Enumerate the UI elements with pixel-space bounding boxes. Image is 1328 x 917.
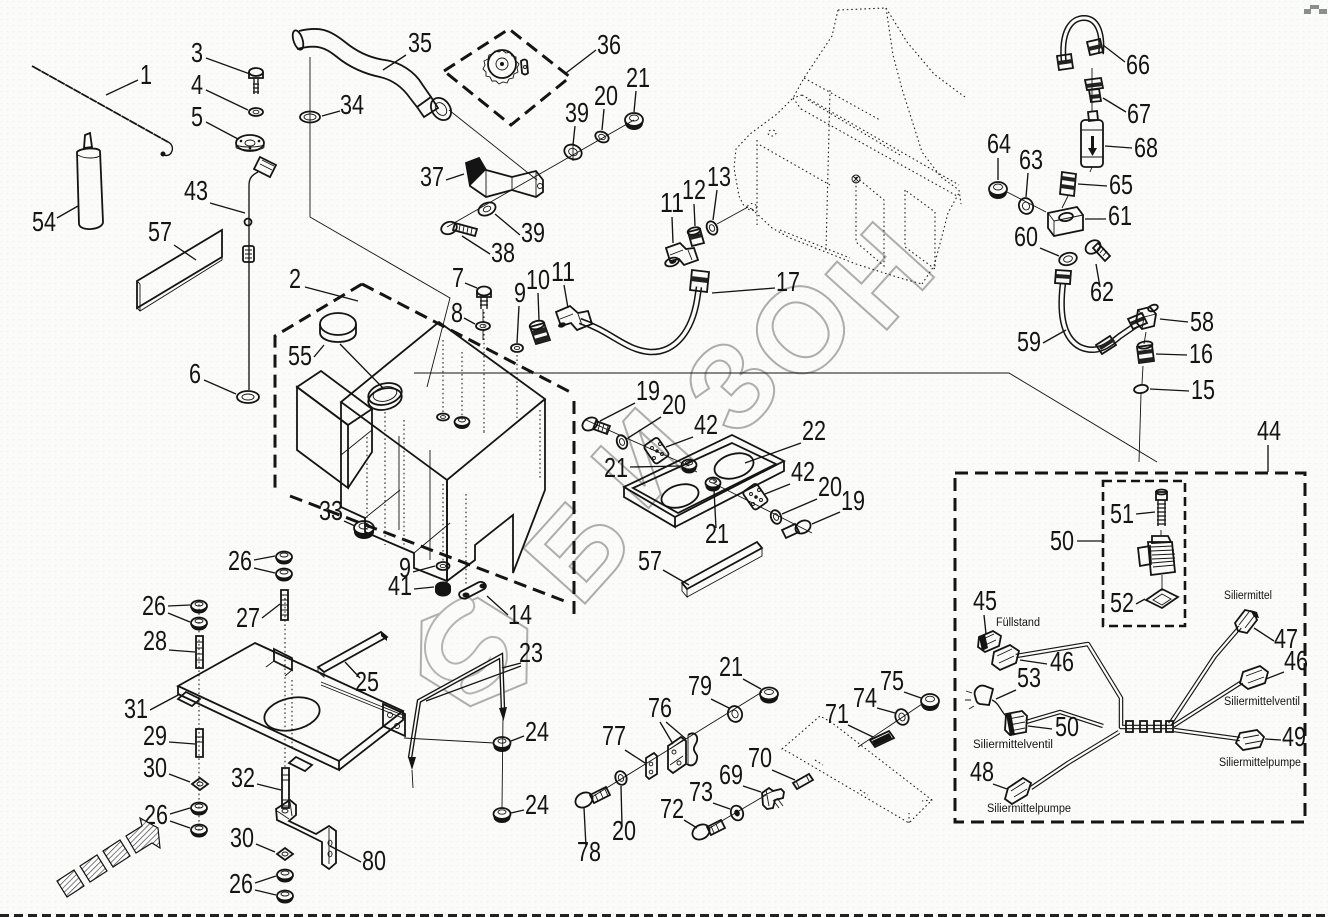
label 20e <box>612 786 636 846</box>
label 33 <box>319 495 355 526</box>
connector part 45 <box>978 631 1001 652</box>
washer part 39 lower <box>476 200 497 218</box>
label 4 <box>191 69 248 110</box>
axis 58-15 <box>1139 332 1146 462</box>
label 8 <box>451 297 475 328</box>
label 17 <box>712 266 800 297</box>
label 2 <box>289 263 358 301</box>
svg-text:37: 37 <box>420 161 444 192</box>
pin part 71 <box>870 731 894 747</box>
label 21 top <box>626 62 650 112</box>
label 30b <box>230 822 275 853</box>
connector part 50b <box>1005 711 1027 736</box>
svg-text:8: 8 <box>451 297 463 328</box>
stud part 27 <box>281 590 288 620</box>
svg-text:26: 26 <box>229 868 253 899</box>
nut part 24 <box>494 737 511 752</box>
label 29 <box>143 720 195 751</box>
axis 75-71 <box>858 704 922 747</box>
plate part 42 <box>643 437 670 465</box>
svg-text:34: 34 <box>340 89 364 120</box>
svg-text:Siliermittelventil: Siliermittelventil <box>973 739 1053 751</box>
washer part 30b <box>277 848 293 860</box>
boundary line <box>310 57 450 387</box>
cap part 36 <box>483 50 528 84</box>
label 13 <box>707 161 731 220</box>
stud part 29 <box>195 729 204 757</box>
label 1 <box>106 59 152 95</box>
svg-text:19: 19 <box>636 375 660 406</box>
label 26 left <box>142 590 190 622</box>
dipstick part 43 <box>243 157 276 390</box>
svg-text:42: 42 <box>694 409 718 440</box>
svg-text:78: 78 <box>577 836 601 867</box>
svg-text:24: 24 <box>525 716 549 747</box>
svg-text:11: 11 <box>660 187 684 218</box>
svg-text:22: 22 <box>802 415 826 446</box>
svg-text:51: 51 <box>1110 498 1134 529</box>
label 32 <box>231 762 281 793</box>
svg-text:36: 36 <box>597 29 621 60</box>
label 44 <box>1257 415 1281 472</box>
label 14 <box>487 596 532 630</box>
bottom page dashed border <box>0 914 1328 917</box>
label 21e <box>719 651 761 689</box>
nut on tank top <box>455 417 470 429</box>
watermark emblem (hexagon S) <box>395 574 554 731</box>
svg-text:29: 29 <box>143 720 167 751</box>
washer part 20e <box>613 770 628 787</box>
label 9 <box>514 277 526 343</box>
label 75 <box>880 665 921 698</box>
label 60 <box>1014 221 1059 256</box>
washer part 74 <box>893 707 911 726</box>
label 68 <box>1105 132 1158 163</box>
ring part 34 <box>300 112 320 123</box>
svg-text:Siliermittelventil: Siliermittelventil <box>1224 696 1300 708</box>
svg-text:27: 27 <box>236 602 260 633</box>
screw part 3 <box>249 68 263 94</box>
label 16 <box>1156 338 1213 369</box>
axis 19-21 <box>586 420 689 466</box>
axis 64-61 <box>1007 192 1046 212</box>
svg-text:72: 72 <box>660 793 684 824</box>
label 50b <box>1028 711 1079 742</box>
svg-text:53: 53 <box>1017 662 1041 693</box>
svg-text:77: 77 <box>602 720 626 751</box>
label 3 <box>191 37 250 74</box>
svg-text:54: 54 <box>32 206 56 237</box>
svg-text:57: 57 <box>148 216 172 247</box>
label 67 <box>1103 98 1151 129</box>
svg-text:33: 33 <box>319 495 343 526</box>
svg-text:21: 21 <box>626 62 650 93</box>
label 53 <box>996 662 1041 699</box>
bolt part 7 <box>477 287 491 310</box>
svg-text:20: 20 <box>594 80 618 111</box>
dashed box 2 <box>275 284 574 614</box>
label 19 <box>600 375 660 421</box>
pin part 70 <box>793 774 813 789</box>
bracket part 37 <box>466 158 543 197</box>
svg-text:20: 20 <box>818 471 842 502</box>
svg-text:60: 60 <box>1014 221 1038 252</box>
nut part 21b on tray <box>706 478 721 492</box>
svg-text:24: 24 <box>525 789 549 820</box>
washer part 13 <box>705 220 720 237</box>
blade (dotted machine part) <box>782 716 932 823</box>
svg-text:79: 79 <box>688 670 712 701</box>
fitting part 12 <box>687 226 704 246</box>
label 21b <box>705 490 729 549</box>
svg-text:32: 32 <box>231 762 255 793</box>
label 20 <box>628 389 686 438</box>
label 46b <box>1266 645 1308 679</box>
label 26 bottom-left <box>144 799 190 830</box>
svg-text:67: 67 <box>1127 98 1151 129</box>
label 58 <box>1160 306 1214 337</box>
nut part 75 <box>921 694 939 711</box>
label 10 <box>526 264 550 320</box>
leader 8 axis <box>483 309 484 433</box>
label 57 middle <box>638 545 689 585</box>
seal part 52 <box>1146 589 1178 608</box>
label 12 <box>682 174 706 226</box>
label 80 <box>330 845 386 876</box>
svg-text:55: 55 <box>288 340 312 371</box>
washer part 9 lower <box>437 562 450 570</box>
svg-text:26: 26 <box>228 545 252 576</box>
nut part 24b <box>494 808 511 823</box>
tank part (under 2) <box>297 312 545 584</box>
screw part 62 <box>1083 237 1110 261</box>
washer part 39 upper <box>562 142 584 162</box>
label 57 upper <box>148 216 196 260</box>
label 22 <box>745 415 826 463</box>
screw part 38 <box>439 220 477 237</box>
bracket part 69 <box>762 788 784 809</box>
label 7 <box>452 262 477 293</box>
plate part 77 <box>646 753 657 779</box>
svg-text:41: 41 <box>388 570 412 601</box>
ring part 6 <box>237 391 259 403</box>
svg-text:30: 30 <box>143 752 167 783</box>
svg-text:2: 2 <box>289 263 301 294</box>
leader 13 to body hole <box>717 207 748 224</box>
fitting part 10 <box>529 319 550 344</box>
svg-text:21: 21 <box>719 651 743 682</box>
label 30 <box>143 752 190 783</box>
svg-text:80: 80 <box>362 845 386 876</box>
svg-text:15: 15 <box>1191 374 1215 405</box>
bolt part 19 <box>580 415 610 434</box>
svg-text:57: 57 <box>638 545 662 576</box>
ring part 15 <box>1133 384 1148 394</box>
label 55 <box>288 340 324 371</box>
nut part 21 on tray <box>682 460 697 474</box>
label 69 <box>719 759 761 792</box>
label 9 lower <box>399 552 435 583</box>
label 26 top <box>228 545 275 576</box>
plate part 42b <box>742 483 769 511</box>
svg-text:9: 9 <box>514 277 526 308</box>
svg-text:73: 73 <box>689 776 713 807</box>
svg-text:58: 58 <box>1190 306 1214 337</box>
plug part 53 <box>965 686 1006 716</box>
washer part 20 <box>615 434 629 451</box>
svg-text:44: 44 <box>1257 415 1281 446</box>
page corner marks top-right <box>1304 5 1327 14</box>
label 61 <box>1085 200 1132 231</box>
harness wires <box>1016 627 1242 788</box>
label 19b <box>812 485 865 524</box>
svg-text:76: 76 <box>648 692 672 723</box>
nuts part 26 top <box>276 552 292 582</box>
svg-text:50: 50 <box>1050 525 1074 556</box>
harness junction ticks <box>1126 721 1173 732</box>
svg-text:25: 25 <box>355 666 379 697</box>
svg-text:39: 39 <box>565 97 589 128</box>
label 39 upper <box>565 97 589 145</box>
strip part 57 upper <box>137 230 222 311</box>
leader plate to 24 <box>404 738 494 743</box>
label 71 <box>825 698 873 737</box>
label 74 <box>853 682 895 713</box>
washer part 30 <box>192 778 208 790</box>
label 49 <box>1265 721 1306 752</box>
washer part 73 <box>729 804 745 822</box>
fitting part 16 <box>1137 340 1154 363</box>
label 15 <box>1150 374 1215 405</box>
svg-text:62: 62 <box>1090 276 1114 307</box>
connector part 48 <box>1005 778 1031 804</box>
connector part 47 <box>1235 610 1259 633</box>
label 25 <box>345 662 379 697</box>
label 59 <box>1017 326 1066 357</box>
label 31 <box>124 693 180 724</box>
label 73 <box>689 776 730 809</box>
svg-text:71: 71 <box>825 698 849 729</box>
svg-text:30: 30 <box>230 822 254 853</box>
label 47 <box>1254 623 1298 654</box>
svg-text:50: 50 <box>1055 711 1079 742</box>
label 37 <box>420 161 464 192</box>
elbow part 58 <box>1136 303 1159 329</box>
svg-text:66: 66 <box>1126 49 1150 80</box>
elbow part 11 right <box>664 243 698 268</box>
svg-text:46: 46 <box>1284 645 1308 676</box>
label 65 <box>1078 169 1133 200</box>
label 64 <box>987 128 1011 180</box>
svg-text:39: 39 <box>521 217 545 248</box>
svg-text:17: 17 <box>776 266 800 297</box>
washer part 4 <box>249 108 263 116</box>
axis 21b-19b <box>713 483 812 533</box>
connector part 46b <box>1240 666 1268 689</box>
svg-text:26: 26 <box>142 590 166 621</box>
tube part 54 <box>77 133 103 229</box>
axis 72-69 <box>708 795 766 829</box>
svg-text:5: 5 <box>191 101 203 132</box>
screw part 78 <box>573 787 610 811</box>
svg-text:Siliermittelpumpe: Siliermittelpumpe <box>987 803 1071 815</box>
nut part 21e <box>760 688 778 704</box>
svg-text:1: 1 <box>140 59 152 90</box>
nut part 21 top <box>625 113 643 130</box>
svg-text:Siliermittelpumpe: Siliermittelpumpe <box>1219 757 1301 769</box>
svg-text:46: 46 <box>1050 646 1074 677</box>
flange part 5 <box>236 135 264 151</box>
label 23 <box>426 637 543 701</box>
travel arrow symbol <box>57 818 160 897</box>
svg-text:38: 38 <box>491 237 515 268</box>
dashed box 50 <box>1103 481 1185 626</box>
label 62 <box>1090 264 1114 307</box>
svg-text:7: 7 <box>452 262 464 293</box>
svg-text:61: 61 <box>1108 200 1132 231</box>
washer part 9 <box>511 344 523 352</box>
label 41 <box>388 570 434 601</box>
elbow part 11 <box>556 306 592 330</box>
connector part 46a <box>992 645 1019 670</box>
bail part 23 <box>408 656 507 808</box>
label 24 <box>511 716 549 747</box>
label 28 <box>143 625 195 656</box>
svg-text:21: 21 <box>705 518 729 549</box>
fitting part 67 <box>1085 78 1103 102</box>
machine body outline <box>734 8 965 284</box>
platform part 31 <box>178 598 405 832</box>
svg-text:43: 43 <box>184 175 208 206</box>
label 20 top <box>594 80 618 130</box>
label 42 <box>666 409 718 447</box>
label 36 <box>566 29 621 73</box>
dashed box 44 <box>955 473 1305 822</box>
svg-text:12: 12 <box>682 174 706 205</box>
svg-text:Siliermittel: Siliermittel <box>1224 590 1272 602</box>
label 42b <box>765 456 815 494</box>
solenoid valve part 50 <box>1138 530 1175 591</box>
svg-text:13: 13 <box>707 161 731 192</box>
bolt part 19b <box>782 518 813 538</box>
svg-text:52: 52 <box>1110 587 1134 618</box>
screw on body <box>852 175 860 183</box>
svg-text:70: 70 <box>748 742 772 773</box>
label 52 <box>1110 587 1145 618</box>
label 77 <box>602 720 645 763</box>
svg-text:11: 11 <box>551 256 575 287</box>
nut part 33 <box>354 521 374 539</box>
label 20b <box>782 471 842 514</box>
svg-text:Füllstand: Füllstand <box>996 617 1040 629</box>
stud part 28 <box>196 636 203 668</box>
label 26 bottom <box>229 868 276 899</box>
hose part 17 <box>580 270 709 352</box>
washer on tank top <box>437 414 449 421</box>
label 72 <box>660 793 697 828</box>
svg-text:4: 4 <box>191 69 203 100</box>
svg-text:6: 6 <box>189 358 201 389</box>
cap part 55 <box>320 313 383 388</box>
label 24b <box>511 789 549 820</box>
label 51 <box>1110 498 1155 529</box>
label 78 <box>577 808 601 867</box>
tray part 22 <box>624 435 784 527</box>
washer part 20 top <box>594 130 611 145</box>
connector part 49 <box>1236 730 1264 750</box>
svg-text:65: 65 <box>1109 169 1133 200</box>
label 48 <box>970 756 1007 789</box>
svg-text:14: 14 <box>508 599 532 630</box>
screw part 72 <box>690 820 725 843</box>
label 76 <box>648 692 686 744</box>
svg-text:28: 28 <box>143 625 167 656</box>
svg-text:69: 69 <box>719 759 743 790</box>
nuts part 26 bottom <box>277 870 293 904</box>
svg-text:49: 49 <box>1282 721 1306 752</box>
svg-text:3: 3 <box>191 37 203 68</box>
label 46a <box>1020 646 1074 677</box>
svg-text:21: 21 <box>604 452 628 483</box>
label 11 right <box>660 187 684 243</box>
svg-text:45: 45 <box>973 585 997 616</box>
label 35 <box>383 27 432 70</box>
washer part 79 <box>726 704 745 724</box>
svg-text:59: 59 <box>1017 326 1041 357</box>
svg-text:20: 20 <box>662 389 686 420</box>
svg-text:23: 23 <box>519 637 543 668</box>
label 45 <box>973 585 997 634</box>
label 39 lower <box>495 214 545 248</box>
svg-text:48: 48 <box>970 756 994 787</box>
label 79 <box>688 670 729 708</box>
assembly axis 37-21 <box>447 120 634 227</box>
nipple part 65 <box>1060 172 1076 196</box>
washer part 60 <box>1058 251 1078 267</box>
svg-text:63: 63 <box>1019 144 1043 175</box>
svg-text:68: 68 <box>1134 132 1158 163</box>
axis 66-65 <box>1062 68 1092 208</box>
svg-text:64: 64 <box>987 128 1011 159</box>
stud part 32 <box>281 768 290 808</box>
plug part 41 <box>435 582 451 597</box>
washer part 8 <box>476 322 490 330</box>
bracket part 80 <box>276 800 336 869</box>
label 43 <box>184 175 245 213</box>
nuts part 26 left <box>191 601 207 631</box>
svg-text:74: 74 <box>853 682 877 713</box>
washer part 20b <box>769 509 783 526</box>
clamp part 76 <box>668 733 697 773</box>
label 6 <box>189 358 236 394</box>
label 54 <box>32 206 78 237</box>
label 70 <box>748 742 795 780</box>
svg-text:16: 16 <box>1189 338 1213 369</box>
label 27 <box>236 602 280 633</box>
svg-text:35: 35 <box>408 27 432 58</box>
nuts part 26 bottom-left <box>191 803 207 838</box>
hose part 35 <box>291 29 456 124</box>
label 34 <box>322 89 364 120</box>
label 50a <box>1050 525 1102 556</box>
filter part 68 <box>1081 111 1103 167</box>
pin part 14 <box>459 581 487 600</box>
dashed box 36 <box>444 29 570 125</box>
svg-text:10: 10 <box>526 264 550 295</box>
label 11 <box>551 256 575 308</box>
hose part 59 <box>1055 270 1147 354</box>
strip part 25 <box>318 632 387 677</box>
